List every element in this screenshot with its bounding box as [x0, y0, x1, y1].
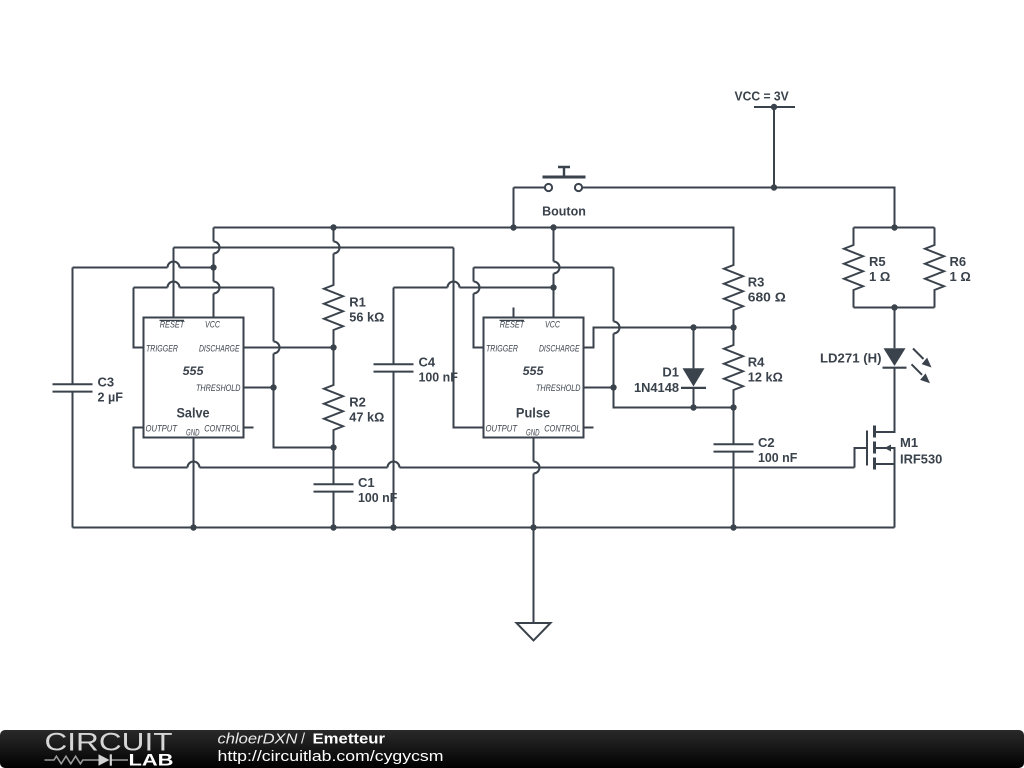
- svg-text:THRESHOLD: THRESHOLD: [196, 383, 241, 393]
- svg-text:RESET: RESET: [160, 320, 186, 330]
- svg-text:56 kΩ: 56 kΩ: [349, 310, 384, 325]
- svg-text:1 Ω: 1 Ω: [950, 269, 971, 284]
- svg-text:2 µF: 2 µF: [98, 390, 123, 405]
- svg-text:VCC: VCC: [545, 320, 560, 330]
- svg-text:1N4148: 1N4148: [634, 380, 679, 395]
- svg-text:R5: R5: [869, 254, 886, 269]
- svg-text:100 nF: 100 nF: [758, 450, 797, 465]
- svg-text:M1: M1: [900, 435, 918, 450]
- svg-text:R4: R4: [748, 355, 765, 370]
- svg-text:C3: C3: [98, 375, 115, 390]
- svg-text:C1: C1: [358, 475, 375, 490]
- svg-text:Bouton: Bouton: [542, 204, 586, 219]
- svg-text:555: 555: [183, 364, 204, 378]
- svg-text:100 nF: 100 nF: [358, 490, 397, 505]
- svg-text:DISCHARGE: DISCHARGE: [199, 343, 240, 353]
- svg-text:http://circuitlab.com/cygycsm: http://circuitlab.com/cygycsm: [218, 749, 444, 765]
- svg-text:OUTPUT: OUTPUT: [146, 424, 179, 434]
- svg-text:LD271 (H): LD271 (H): [820, 351, 882, 366]
- svg-text:C4: C4: [419, 355, 436, 370]
- svg-text:1 Ω: 1 Ω: [869, 269, 890, 284]
- svg-text:CONTROL: CONTROL: [204, 424, 240, 434]
- svg-text:R2: R2: [349, 395, 366, 410]
- svg-text:VCC: VCC: [205, 320, 220, 330]
- svg-text:DISCHARGE: DISCHARGE: [539, 343, 580, 353]
- svg-text:R1: R1: [349, 295, 366, 310]
- svg-text:TRIGGER: TRIGGER: [486, 343, 518, 353]
- svg-text:IRF530: IRF530: [900, 452, 942, 467]
- svg-text:12 kΩ: 12 kΩ: [748, 370, 783, 385]
- svg-text:LAB: LAB: [129, 751, 174, 768]
- svg-text:THRESHOLD: THRESHOLD: [536, 383, 581, 393]
- svg-text:CONTROL: CONTROL: [544, 424, 580, 434]
- svg-text:680 Ω: 680 Ω: [748, 290, 786, 305]
- svg-text:OUTPUT: OUTPUT: [486, 424, 519, 434]
- svg-text:TRIGGER: TRIGGER: [146, 343, 178, 353]
- svg-text:D1: D1: [662, 364, 679, 379]
- svg-text:Salve: Salve: [177, 404, 210, 420]
- svg-text:GND: GND: [186, 427, 200, 437]
- svg-text:R3: R3: [748, 275, 765, 290]
- svg-text:100 nF: 100 nF: [419, 370, 458, 385]
- svg-text:RESET: RESET: [500, 320, 526, 330]
- svg-text:Pulse: Pulse: [516, 404, 550, 420]
- svg-text:VCC = 3V: VCC = 3V: [735, 89, 789, 104]
- svg-text:GND: GND: [526, 427, 540, 437]
- svg-text:C2: C2: [758, 435, 775, 450]
- svg-text:47 kΩ: 47 kΩ: [349, 410, 384, 425]
- svg-text:R6: R6: [950, 254, 967, 269]
- svg-text:chloerDXN: chloerDXN: [218, 732, 299, 748]
- svg-text:555: 555: [523, 364, 544, 378]
- svg-text:Emetteur: Emetteur: [313, 732, 386, 748]
